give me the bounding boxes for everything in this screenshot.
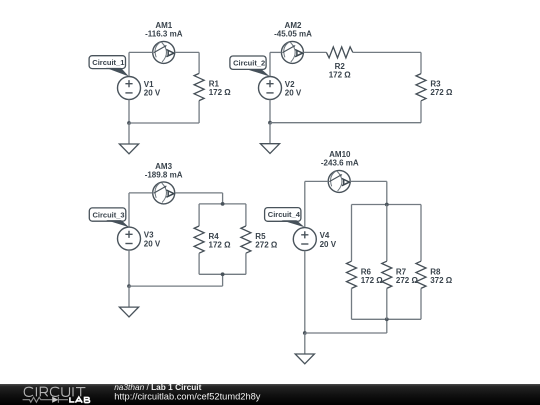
wire bbox=[386, 288, 388, 319]
wire bbox=[386, 205, 388, 262]
logo wordmark LAB bbox=[70, 397, 90, 403]
svg-text:Circuit_4: Circuit_4 bbox=[268, 210, 301, 219]
resistor R6 bbox=[347, 261, 357, 288]
wire bbox=[245, 204, 247, 226]
svg-text:172 Ω: 172 Ω bbox=[209, 241, 232, 250]
junction node bbox=[221, 272, 225, 276]
junction node bbox=[303, 331, 307, 335]
svg-text:Circuit_2: Circuit_2 bbox=[233, 58, 265, 67]
resistor R2 bbox=[326, 47, 352, 58]
wire bbox=[304, 251, 306, 333]
callout Circuit_2 bbox=[230, 56, 270, 77]
wire bbox=[198, 52, 200, 73]
junction node bbox=[127, 284, 131, 288]
wire bbox=[304, 181, 306, 227]
svg-text:-45.05 mA: -45.05 mA bbox=[274, 30, 312, 39]
wire bbox=[353, 51, 421, 53]
wire bbox=[351, 205, 353, 262]
wire bbox=[198, 101, 200, 123]
wire bbox=[222, 193, 224, 204]
svg-text:172 Ω: 172 Ω bbox=[209, 88, 232, 97]
ammeter AM1 bbox=[153, 41, 175, 63]
wire bbox=[303, 51, 326, 53]
wire bbox=[420, 52, 422, 73]
svg-text:20 V: 20 V bbox=[285, 89, 302, 98]
label R1 172 bbox=[209, 80, 232, 98]
junction node bbox=[385, 317, 389, 321]
svg-text:372 Ω: 372 Ω bbox=[430, 276, 453, 285]
ammeter AM2 bbox=[281, 41, 303, 63]
wire bbox=[198, 253, 200, 274]
svg-text:272 Ω: 272 Ω bbox=[396, 276, 419, 285]
ammeter AM10 bbox=[328, 170, 350, 192]
wire bbox=[269, 52, 271, 76]
wire bbox=[386, 319, 388, 333]
wire bbox=[129, 122, 199, 124]
wire bbox=[129, 51, 153, 53]
label V1 20V bbox=[144, 80, 161, 98]
wire bbox=[129, 285, 223, 287]
wire bbox=[175, 51, 199, 53]
junction node bbox=[385, 203, 389, 207]
voltage source V3 bbox=[118, 227, 141, 250]
wire bbox=[175, 192, 223, 194]
wire bbox=[128, 52, 130, 76]
ground bbox=[119, 123, 138, 154]
wire bbox=[270, 51, 281, 53]
resistor R8 bbox=[416, 261, 426, 288]
wire bbox=[350, 180, 387, 182]
ground bbox=[119, 286, 138, 317]
label R6 172 bbox=[361, 267, 384, 285]
wire bbox=[351, 288, 353, 319]
junction node bbox=[221, 202, 225, 206]
CircuitLab logo wordmark CIRCUIT bbox=[24, 387, 85, 396]
wire bbox=[420, 101, 422, 123]
svg-text:-189.8 mA: -189.8 mA bbox=[145, 171, 183, 180]
wire bbox=[305, 180, 328, 182]
label V3 20V bbox=[144, 231, 161, 249]
svg-text:http://circuitlab.com/cef52tum: http://circuitlab.com/cef52tumd2h8y bbox=[114, 391, 261, 401]
label V4 20V bbox=[320, 231, 337, 249]
label R3 272 bbox=[430, 80, 453, 98]
svg-text:-116.3 mA: -116.3 mA bbox=[145, 30, 183, 39]
logo resistor-diode glyph bbox=[23, 397, 53, 402]
resistor R3 bbox=[416, 74, 426, 101]
callout Circuit_3 bbox=[89, 208, 129, 227]
wire bbox=[128, 250, 130, 286]
svg-text:172 Ω: 172 Ω bbox=[329, 71, 352, 80]
label R7 272 bbox=[396, 267, 419, 285]
ammeter AM1 label bbox=[145, 21, 183, 38]
ammeter AM2 label bbox=[274, 21, 312, 39]
wire bbox=[269, 100, 271, 123]
wire bbox=[420, 288, 422, 319]
ground bbox=[295, 333, 314, 364]
wire bbox=[198, 204, 200, 226]
wire top rail bbox=[199, 203, 246, 205]
svg-text:Circuit_1: Circuit_1 bbox=[92, 58, 124, 67]
callout Circuit_4 bbox=[265, 208, 305, 228]
wire bbox=[386, 181, 388, 204]
label R4 172 bbox=[209, 232, 232, 250]
wire bbox=[129, 192, 153, 194]
junction node bbox=[127, 121, 131, 125]
voltage source V2 bbox=[259, 77, 282, 100]
wire bbox=[222, 274, 224, 286]
svg-text:20 V: 20 V bbox=[144, 239, 161, 248]
resistor R7 bbox=[382, 261, 392, 288]
ammeter AM3 bbox=[153, 182, 175, 204]
ammeter AM3 label bbox=[145, 162, 183, 180]
callout Circuit_1 bbox=[89, 56, 129, 77]
label R8 372 bbox=[430, 267, 453, 285]
wire top rail bbox=[352, 204, 422, 206]
ground bbox=[260, 123, 279, 154]
svg-text:20 V: 20 V bbox=[144, 89, 161, 98]
wire bbox=[128, 100, 130, 124]
svg-text:-243.6 mA: -243.6 mA bbox=[321, 158, 359, 167]
resistor R5 bbox=[241, 226, 251, 253]
label R2 172 bbox=[329, 62, 352, 80]
label V2 20V bbox=[285, 80, 302, 98]
svg-text:R2: R2 bbox=[335, 62, 346, 71]
svg-text:272 Ω: 272 Ω bbox=[430, 88, 453, 97]
wire bbox=[305, 332, 387, 334]
resistor R4 bbox=[194, 226, 204, 253]
wire bbox=[270, 122, 421, 124]
svg-text:272 Ω: 272 Ω bbox=[255, 241, 278, 250]
label R5 272 bbox=[255, 232, 278, 250]
voltage source V4 bbox=[293, 228, 316, 251]
wire bbox=[420, 205, 422, 262]
wire bbox=[128, 193, 130, 227]
wire bbox=[245, 253, 247, 274]
ammeter AM10 label bbox=[321, 150, 359, 167]
junction node bbox=[268, 121, 272, 125]
voltage source V1 bbox=[118, 77, 141, 100]
resistor R1 bbox=[194, 73, 204, 100]
svg-text:Circuit_3: Circuit_3 bbox=[93, 210, 125, 219]
wire bottom rail bbox=[199, 273, 246, 275]
wire bottom rail bbox=[352, 318, 422, 320]
svg-text:20 V: 20 V bbox=[320, 240, 337, 249]
svg-text:172 Ω: 172 Ω bbox=[361, 276, 384, 285]
